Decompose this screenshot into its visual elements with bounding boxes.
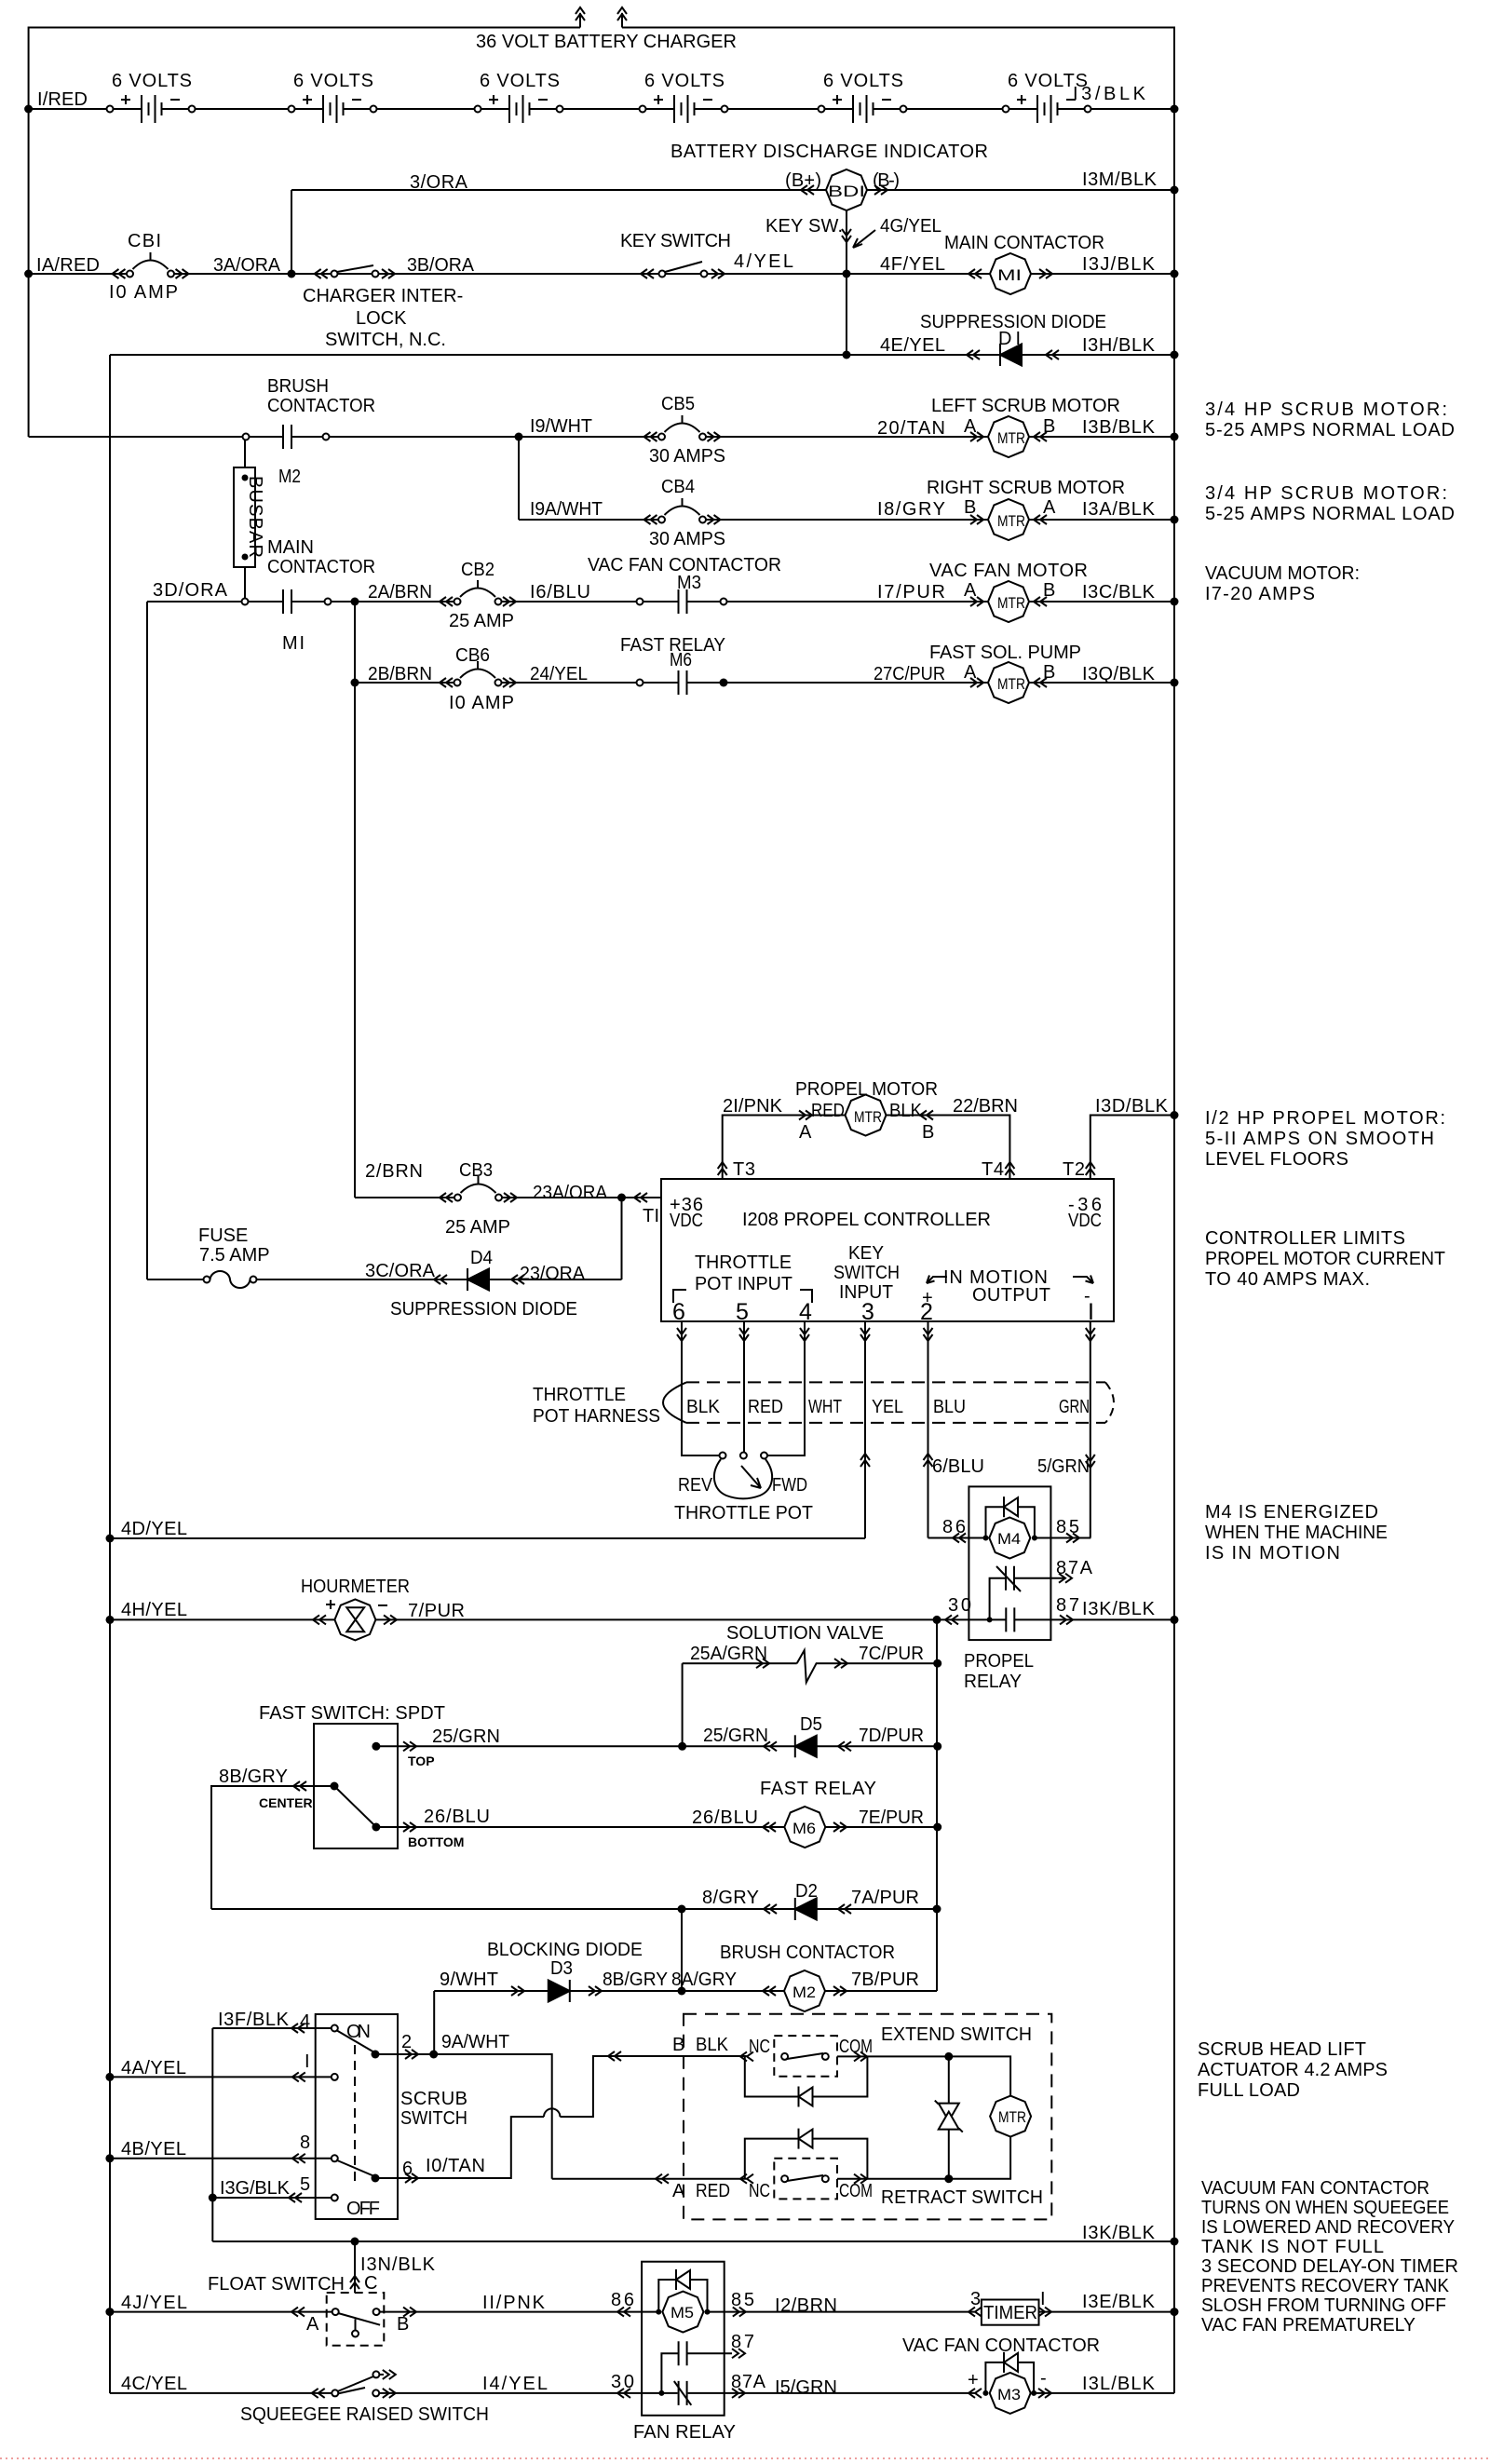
svg-text:4G/YEL: 4G/YEL	[880, 216, 941, 237]
svg-text:REV: REV	[678, 1475, 713, 1496]
svg-text:B: B	[397, 2314, 409, 2335]
svg-text:+: +	[968, 2370, 979, 2390]
svg-text:4C/YEL: 4C/YEL	[121, 2374, 187, 2394]
svg-text:B: B	[672, 2035, 684, 2055]
svg-text:LEVEL FLOORS: LEVEL FLOORS	[1205, 1149, 1348, 1170]
svg-text:A: A	[964, 416, 977, 437]
svg-text:7C/PUR: 7C/PUR	[859, 1644, 924, 1664]
svg-text:WHEN THE MACHINE: WHEN THE MACHINE	[1205, 1523, 1388, 1543]
svg-text:FULL LOAD: FULL LOAD	[1198, 2080, 1300, 2101]
svg-text:BRUSH: BRUSH	[267, 376, 329, 397]
svg-text:PROPEL MOTOR: PROPEL MOTOR	[795, 1079, 938, 1100]
svg-text:23A/ORA: 23A/ORA	[533, 1183, 608, 1203]
svg-text:I3Q/BLK: I3Q/BLK	[1082, 664, 1156, 684]
svg-text:CONTACTOR: CONTACTOR	[267, 557, 375, 577]
svg-text:I3K/BLK: I3K/BLK	[1082, 1599, 1156, 1619]
svg-text:CONTACTOR: CONTACTOR	[267, 396, 375, 416]
svg-text:25A/GRN: 25A/GRN	[690, 1644, 767, 1664]
svg-text:7/PUR: 7/PUR	[408, 1601, 465, 1621]
svg-text:A: A	[964, 580, 977, 601]
svg-text:A: A	[672, 2181, 685, 2201]
svg-text:25/GRN: 25/GRN	[703, 1726, 768, 1746]
svg-text:I3H/BLK: I3H/BLK	[1082, 335, 1156, 356]
svg-text:I3M/BLK: I3M/BLK	[1082, 169, 1158, 190]
svg-text:2A/BRN: 2A/BRN	[368, 582, 432, 602]
svg-text:3: 3	[970, 2289, 981, 2309]
svg-text:6 VOLTS: 6 VOLTS	[112, 71, 192, 91]
svg-text:BLK: BLK	[696, 2035, 729, 2055]
svg-text:VDC: VDC	[670, 1211, 703, 1231]
svg-text:D5: D5	[800, 1714, 822, 1735]
svg-text:I7/PUR: I7/PUR	[877, 582, 945, 602]
svg-text:4J/YEL: 4J/YEL	[121, 2293, 187, 2313]
svg-text:6: 6	[672, 1299, 685, 1325]
svg-text:T4: T4	[982, 1159, 1004, 1180]
svg-text:2B/BRN: 2B/BRN	[368, 664, 432, 684]
svg-text:5: 5	[736, 1299, 749, 1325]
svg-text:25/GRN: 25/GRN	[432, 1726, 500, 1747]
svg-text:30 AMPS: 30 AMPS	[649, 446, 725, 467]
svg-text:ON: ON	[346, 2022, 371, 2042]
svg-text:VACUUM MOTOR:: VACUUM MOTOR:	[1205, 563, 1360, 584]
svg-text:7E/PUR: 7E/PUR	[859, 1807, 924, 1828]
svg-text:4: 4	[300, 2011, 310, 2032]
svg-text:SQUEEGEE RAISED SWITCH: SQUEEGEE RAISED SWITCH	[240, 2404, 489, 2425]
svg-text:BDI: BDI	[828, 183, 865, 200]
svg-text:VDC: VDC	[1068, 1211, 1102, 1231]
svg-text:9/WHT: 9/WHT	[440, 1970, 498, 1990]
svg-text:VAC FAN CONTACTOR: VAC FAN CONTACTOR	[902, 2335, 1100, 2356]
svg-text:I: I	[305, 2051, 310, 2072]
svg-text:8: 8	[300, 2132, 310, 2153]
svg-text:4A/YEL: 4A/YEL	[121, 2058, 186, 2078]
svg-text:POT INPUT: POT INPUT	[695, 1274, 792, 1294]
svg-text:I3E/BLK: I3E/BLK	[1082, 2292, 1156, 2312]
svg-text:RED: RED	[696, 2181, 730, 2201]
svg-text:RED: RED	[748, 1397, 783, 1417]
svg-text:B: B	[1043, 662, 1055, 683]
svg-text:I7-20 AMPS: I7-20 AMPS	[1205, 584, 1315, 604]
svg-text:M6: M6	[670, 650, 692, 670]
svg-text:MTR: MTR	[997, 675, 1025, 693]
svg-text:3C/ORA: 3C/ORA	[365, 1261, 436, 1281]
svg-text:36 VOLT BATTERY CHARGER: 36 VOLT BATTERY CHARGER	[476, 32, 737, 52]
svg-text:MTR: MTR	[997, 594, 1025, 612]
svg-text:BRUSH CONTACTOR: BRUSH CONTACTOR	[720, 1943, 895, 1963]
svg-text:VAC FAN PREMATURELY: VAC FAN PREMATURELY	[1201, 2315, 1415, 2335]
svg-text:I2/BRN: I2/BRN	[775, 2295, 837, 2316]
svg-text:FAN RELAY: FAN RELAY	[633, 2422, 736, 2443]
svg-text:4F/YEL: 4F/YEL	[880, 254, 945, 275]
svg-text:I3A/BLK: I3A/BLK	[1082, 499, 1156, 520]
svg-text:7A/PUR: 7A/PUR	[851, 1888, 919, 1908]
svg-text:LEFT SCRUB MOTOR: LEFT SCRUB MOTOR	[931, 396, 1120, 416]
svg-text:MAIN: MAIN	[267, 537, 314, 558]
svg-text:2/BRN: 2/BRN	[365, 1161, 423, 1182]
svg-text:SWITCH: SWITCH	[400, 2108, 467, 2129]
svg-text:OFF: OFF	[346, 2199, 380, 2219]
svg-text:6/BLU: 6/BLU	[932, 1456, 984, 1477]
svg-text:PROPEL: PROPEL	[964, 1651, 1034, 1672]
svg-text:BATTERY DISCHARGE INDICATOR: BATTERY DISCHARGE INDICATOR	[670, 142, 988, 162]
svg-text:BLK: BLK	[686, 1397, 721, 1417]
svg-text:4H/YEL: 4H/YEL	[121, 1600, 187, 1620]
svg-text:CB4: CB4	[661, 477, 695, 497]
svg-text:I8/GRY: I8/GRY	[877, 499, 945, 520]
svg-text:FAST SOL. PUMP: FAST SOL. PUMP	[929, 643, 1081, 663]
svg-text:25 AMP: 25 AMP	[449, 611, 514, 631]
svg-text:II/PNK: II/PNK	[482, 2293, 546, 2313]
svg-text:8A/GRY: 8A/GRY	[671, 1970, 737, 1990]
svg-text:20/TAN: 20/TAN	[877, 418, 945, 439]
svg-text:LOCK: LOCK	[356, 308, 407, 329]
svg-text:27C/PUR: 27C/PUR	[874, 664, 945, 684]
svg-text:VACUUM FAN CONTACTOR: VACUUM FAN CONTACTOR	[1201, 2178, 1429, 2199]
svg-text:T2: T2	[1063, 1159, 1085, 1180]
svg-text:5-25 AMPS NORMAL LOAD: 5-25 AMPS NORMAL LOAD	[1205, 504, 1455, 524]
svg-text:M3: M3	[677, 573, 701, 593]
svg-text:I3L/BLK: I3L/BLK	[1082, 2374, 1156, 2394]
svg-text:4E/YEL: 4E/YEL	[880, 335, 945, 356]
svg-text:SOLUTION VALVE: SOLUTION VALVE	[726, 1623, 884, 1644]
svg-text:26/BLU: 26/BLU	[692, 1807, 758, 1828]
svg-text:6 VOLTS: 6 VOLTS	[293, 71, 373, 91]
svg-text:6 VOLTS: 6 VOLTS	[480, 71, 560, 91]
svg-text:5-25 AMPS NORMAL LOAD: 5-25 AMPS NORMAL LOAD	[1205, 420, 1455, 440]
svg-text:I3C/BLK: I3C/BLK	[1082, 582, 1156, 602]
svg-text:POT HARNESS: POT HARNESS	[533, 1406, 660, 1427]
svg-text:+: +	[922, 1288, 933, 1308]
svg-text:3B/ORA: 3B/ORA	[407, 255, 475, 276]
svg-text:NC: NC	[749, 2037, 770, 2057]
svg-text:3/4 HP SCRUB MOTOR:: 3/4 HP SCRUB MOTOR:	[1205, 399, 1447, 420]
svg-text:I208 PROPEL CONTROLLER: I208 PROPEL CONTROLLER	[742, 1210, 991, 1230]
svg-text:COM: COM	[839, 2037, 873, 2057]
svg-text:6: 6	[402, 2159, 413, 2179]
svg-text:SUPPRESSION DIODE: SUPPRESSION DIODE	[390, 1299, 577, 1320]
svg-text:MI: MI	[997, 266, 1022, 284]
svg-text:2I/PNK: 2I/PNK	[723, 1096, 783, 1117]
svg-text:MTR: MTR	[997, 512, 1025, 530]
svg-text:7.5 AMP: 7.5 AMP	[199, 1245, 270, 1266]
svg-text:30 AMPS: 30 AMPS	[649, 529, 725, 549]
svg-text:A: A	[1043, 497, 1056, 518]
svg-text:FUSE: FUSE	[198, 1225, 248, 1246]
svg-text:CBI: CBI	[128, 231, 161, 251]
svg-text:6 VOLTS: 6 VOLTS	[644, 71, 725, 91]
svg-text:TIMER: TIMER	[983, 2303, 1037, 2323]
svg-text:OUTPUT: OUTPUT	[972, 1285, 1050, 1306]
svg-text:C: C	[364, 2273, 377, 2294]
svg-text:THROTTLE: THROTTLE	[695, 1252, 792, 1273]
svg-text:BLU: BLU	[933, 1397, 966, 1417]
svg-text:FAST RELAY: FAST RELAY	[760, 1779, 876, 1799]
svg-text:RIGHT SCRUB MOTOR: RIGHT SCRUB MOTOR	[927, 478, 1125, 498]
svg-text:3/ORA: 3/ORA	[410, 172, 468, 193]
svg-text:I: I	[1040, 2289, 1046, 2309]
svg-text:SUPPRESSION DIODE: SUPPRESSION DIODE	[920, 312, 1106, 332]
svg-text:(B+): (B+)	[785, 170, 821, 191]
svg-text:4: 4	[799, 1299, 812, 1325]
svg-text:I3J/BLK: I3J/BLK	[1082, 254, 1156, 275]
svg-text:BOTTOM: BOTTOM	[408, 1834, 464, 1849]
svg-text:8B/GRY: 8B/GRY	[219, 1767, 288, 1787]
svg-text:I6/BLU: I6/BLU	[530, 582, 590, 602]
svg-text:I3D/BLK: I3D/BLK	[1095, 1096, 1169, 1117]
svg-text:BLOCKING DIODE: BLOCKING DIODE	[487, 1940, 643, 1960]
svg-text:B: B	[964, 497, 976, 518]
svg-text:M6: M6	[792, 1820, 816, 1837]
svg-text:26/BLU: 26/BLU	[424, 1807, 490, 1827]
svg-text:ACTUATOR 4.2 AMPS: ACTUATOR 4.2 AMPS	[1198, 2060, 1388, 2080]
svg-text:A: A	[799, 1122, 812, 1143]
svg-text:D4: D4	[470, 1248, 493, 1268]
svg-text:KEY SWITCH: KEY SWITCH	[620, 231, 731, 251]
svg-text:CHARGER INTER-: CHARGER INTER-	[303, 286, 463, 306]
svg-text:YEL: YEL	[872, 1397, 903, 1417]
svg-text:TOP: TOP	[408, 1753, 435, 1768]
svg-text:CB5: CB5	[661, 394, 695, 414]
svg-text:MAIN CONTACTOR: MAIN CONTACTOR	[944, 233, 1104, 253]
svg-text:A: A	[306, 2314, 319, 2335]
svg-text:SWITCH: SWITCH	[833, 1263, 900, 1283]
svg-text:HOURMETER: HOURMETER	[301, 1577, 410, 1597]
svg-text:6 VOLTS: 6 VOLTS	[823, 71, 903, 91]
svg-text:4B/YEL: 4B/YEL	[121, 2139, 186, 2159]
svg-text:PREVENTS RECOVERY TANK: PREVENTS RECOVERY TANK	[1201, 2276, 1450, 2296]
svg-text:GRN: GRN	[1059, 1397, 1090, 1417]
svg-text:I5/GRN: I5/GRN	[775, 2377, 837, 2398]
svg-text:8B/GRY: 8B/GRY	[603, 1970, 668, 1990]
svg-text:I0/TAN: I0/TAN	[426, 2156, 485, 2176]
svg-text:MI: MI	[282, 633, 305, 654]
svg-text:CB6: CB6	[455, 645, 490, 666]
svg-text:M4 IS ENERGIZED: M4 IS ENERGIZED	[1205, 1502, 1378, 1523]
svg-text:TI: TI	[643, 1206, 659, 1226]
svg-text:I3K/BLK: I3K/BLK	[1082, 2223, 1156, 2243]
svg-text:B: B	[1043, 580, 1055, 601]
svg-text:I3N/BLK: I3N/BLK	[360, 2254, 436, 2275]
svg-text:WHT: WHT	[808, 1397, 842, 1417]
svg-text:I3F/BLK: I3F/BLK	[218, 2010, 290, 2030]
svg-text:22/BRN: 22/BRN	[953, 1096, 1018, 1117]
svg-text:I/2 HP PROPEL MOTOR:: I/2 HP PROPEL MOTOR:	[1205, 1108, 1445, 1129]
svg-text:3 SECOND DELAY-ON TIMER: 3 SECOND DELAY-ON TIMER	[1201, 2256, 1458, 2277]
svg-text:3: 3	[861, 1299, 874, 1325]
svg-text:CB2: CB2	[461, 560, 494, 580]
svg-text:I4/YEL: I4/YEL	[482, 2374, 548, 2394]
svg-text:IA/RED: IA/RED	[36, 255, 100, 276]
svg-text:VAC FAN MOTOR: VAC FAN MOTOR	[929, 561, 1088, 581]
svg-text:4D/YEL: 4D/YEL	[121, 1519, 187, 1539]
svg-text:THROTTLE POT: THROTTLE POT	[674, 1503, 813, 1523]
svg-text:BLK: BLK	[889, 1101, 923, 1121]
svg-text:SWITCH, N.C.: SWITCH, N.C.	[325, 330, 446, 350]
svg-text:MTR: MTR	[998, 2108, 1026, 2126]
svg-text:A: A	[964, 662, 977, 683]
svg-text:IS IN MOTION: IS IN MOTION	[1205, 1543, 1340, 1564]
svg-text:I0 AMP: I0 AMP	[449, 693, 514, 713]
svg-text:3/4 HP SCRUB MOTOR:: 3/4 HP SCRUB MOTOR:	[1205, 483, 1447, 504]
svg-text:B: B	[922, 1122, 934, 1143]
svg-text:5: 5	[300, 2174, 310, 2195]
svg-text:M2: M2	[278, 467, 301, 487]
svg-text:I9/WHT: I9/WHT	[530, 416, 592, 437]
svg-text:IS LOWERED AND RECOVERY: IS LOWERED AND RECOVERY	[1201, 2217, 1455, 2238]
svg-text:(B-): (B-)	[873, 170, 900, 191]
svg-text:87A: 87A	[1056, 1558, 1093, 1578]
svg-text:I3G/BLK: I3G/BLK	[220, 2178, 291, 2199]
svg-text:5/GRN: 5/GRN	[1037, 1456, 1090, 1477]
svg-text:24/YEL: 24/YEL	[530, 664, 588, 684]
svg-text:M4: M4	[997, 1530, 1021, 1548]
svg-text:7B/PUR: 7B/PUR	[851, 1970, 919, 1990]
svg-text:KEY SW.: KEY SW.	[765, 216, 843, 237]
svg-text:2: 2	[401, 2032, 412, 2052]
svg-text:SCRUB: SCRUB	[400, 2089, 467, 2109]
svg-text:NC: NC	[749, 2181, 770, 2201]
svg-text:M2: M2	[792, 1983, 816, 2001]
svg-text:I/RED: I/RED	[37, 89, 88, 110]
svg-text:BUSBAR: BUSBAR	[245, 476, 265, 558]
svg-text:MTR: MTR	[997, 429, 1025, 447]
svg-text:I9A/WHT: I9A/WHT	[530, 499, 603, 520]
svg-text:I0 AMP: I0 AMP	[109, 282, 178, 303]
svg-text:M3: M3	[997, 2386, 1021, 2403]
svg-text:EXTEND SWITCH: EXTEND SWITCH	[881, 2024, 1032, 2045]
svg-text:3A/ORA: 3A/ORA	[213, 255, 281, 276]
svg-text:FLOAT SWITCH: FLOAT SWITCH	[208, 2274, 345, 2295]
svg-text:TANK IS NOT FULL: TANK IS NOT FULL	[1201, 2237, 1384, 2257]
svg-text:T3: T3	[733, 1159, 755, 1180]
svg-text:CENTER: CENTER	[259, 1795, 313, 1810]
svg-text:B: B	[1043, 416, 1055, 437]
svg-text:25 AMP: 25 AMP	[445, 1217, 510, 1238]
svg-text:KEY: KEY	[848, 1243, 884, 1264]
svg-text:8/GRY: 8/GRY	[702, 1888, 759, 1908]
svg-text:D2: D2	[795, 1881, 818, 1902]
svg-text:TO 40 AMPS MAX.: TO 40 AMPS MAX.	[1205, 1269, 1370, 1290]
svg-text:I3B/BLK: I3B/BLK	[1082, 417, 1156, 438]
svg-text:D3: D3	[550, 1958, 573, 1979]
svg-text:RED: RED	[811, 1101, 845, 1121]
svg-text:PROPEL MOTOR CURRENT: PROPEL MOTOR CURRENT	[1205, 1249, 1445, 1269]
svg-text:COM: COM	[839, 2181, 873, 2201]
svg-text:-: -	[1040, 2368, 1047, 2389]
svg-text:M5: M5	[670, 2304, 694, 2322]
svg-text:7D/PUR: 7D/PUR	[859, 1726, 924, 1746]
svg-text:DI: DI	[998, 329, 1021, 349]
svg-text:MTR: MTR	[854, 1108, 882, 1126]
svg-text:I3/BLK: I3/BLK	[1073, 84, 1146, 104]
svg-text:FAST SWITCH: SPDT: FAST SWITCH: SPDT	[259, 1703, 445, 1724]
svg-text:9A/WHT: 9A/WHT	[441, 2032, 509, 2052]
svg-text:23/ORA: 23/ORA	[520, 1264, 586, 1284]
svg-text:5-II AMPS ON SMOOTH: 5-II AMPS ON SMOOTH	[1205, 1129, 1434, 1149]
svg-text:FWD: FWD	[772, 1475, 807, 1496]
svg-text:87A: 87A	[731, 2372, 766, 2392]
svg-text:CB3: CB3	[459, 1160, 493, 1181]
svg-text:CONTROLLER LIMITS: CONTROLLER LIMITS	[1205, 1228, 1405, 1249]
svg-text:SLOSH FROM TURNING OFF: SLOSH FROM TURNING OFF	[1201, 2295, 1446, 2316]
svg-text:RELAY: RELAY	[964, 1672, 1022, 1692]
svg-text:4/YEL: 4/YEL	[734, 251, 793, 272]
svg-text:TURNS ON WHEN SQUEEGEE: TURNS ON WHEN SQUEEGEE	[1201, 2198, 1449, 2218]
svg-text:-: -	[1084, 1286, 1090, 1306]
svg-text:RETRACT SWITCH: RETRACT SWITCH	[881, 2187, 1043, 2208]
svg-text:SCRUB HEAD LIFT: SCRUB HEAD LIFT	[1198, 2039, 1366, 2060]
svg-text:THROTTLE: THROTTLE	[533, 1385, 626, 1405]
svg-text:3D/ORA: 3D/ORA	[153, 580, 228, 601]
